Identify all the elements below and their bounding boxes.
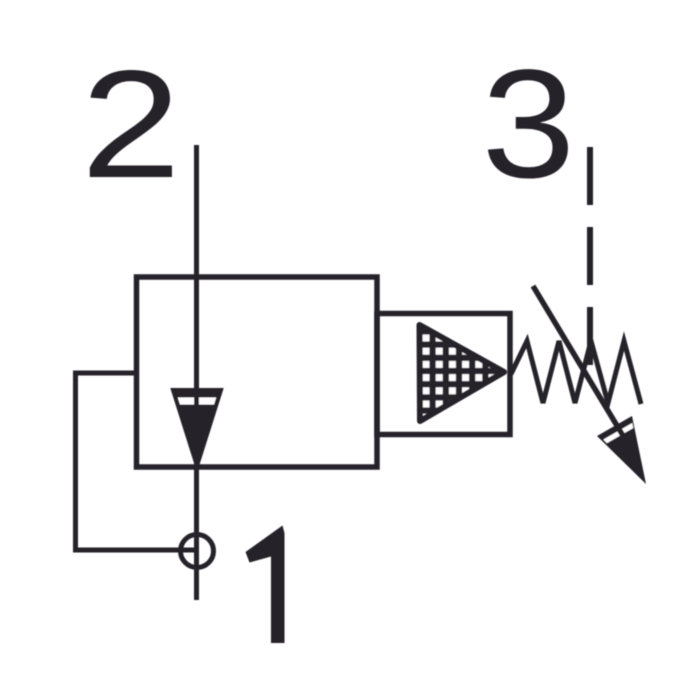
hatched right triangle (pilot element): [420, 325, 505, 421]
spring: [511, 341, 641, 404]
adjustment arrow shaft: [533, 286, 624, 437]
valve body box: [137, 277, 378, 467]
svg-text:3: 3: [482, 38, 576, 210]
wire: vertical flow line port2 to port1: [194, 145, 199, 600]
pilot wire: bottom horizontal to circle: [73, 548, 197, 553]
port label 2: [81, 40, 181, 210]
pilot wire: box to left: [73, 371, 139, 376]
junction circle port 1: [181, 535, 214, 568]
wire: vertical line over triangle: [194, 380, 199, 470]
port label 1: [246, 526, 285, 644]
actuator box: [377, 314, 510, 435]
down arrow (flow) triangle: [173, 390, 221, 466]
dashed pilot line from port 3: [587, 147, 593, 367]
port label 3: [482, 38, 576, 210]
adjustment arrow head: [597, 416, 646, 484]
svg-text:2: 2: [81, 40, 181, 210]
pilot wire: left vertical: [73, 371, 78, 553]
